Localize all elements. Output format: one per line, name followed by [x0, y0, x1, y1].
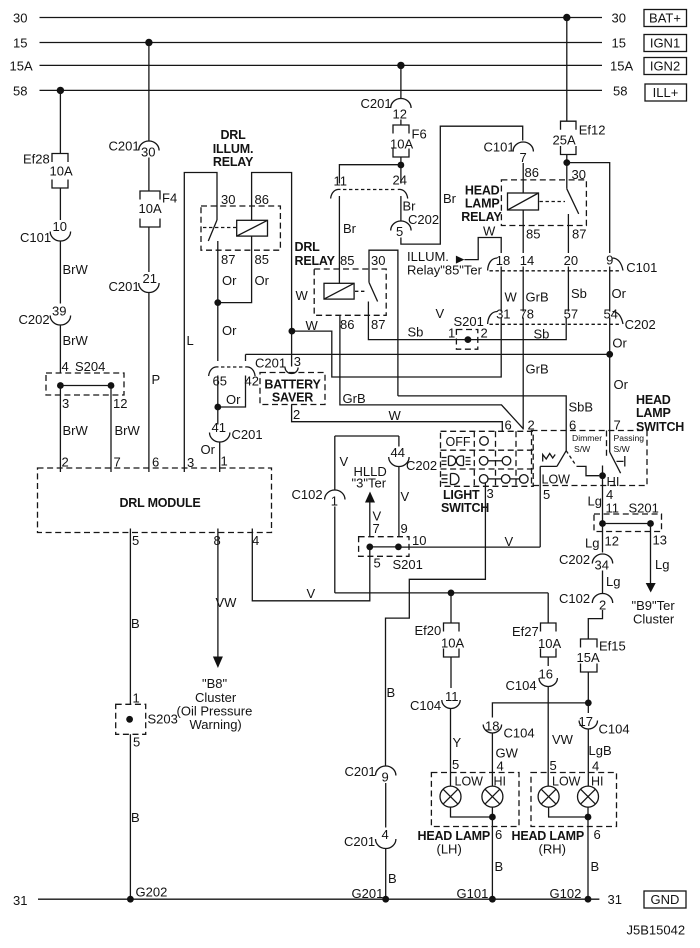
wire V S201-5 to DRL module pin4	[252, 529, 369, 601]
svg-text:65: 65	[213, 374, 227, 389]
wire B DRL module pin5 to splice S203	[129, 529, 131, 705]
wire relay 85 to C101 pin14	[522, 210, 524, 253]
svg-text:6: 6	[569, 418, 576, 433]
wire Ef20 to C104 pin11	[450, 657, 452, 688]
svg-text:B: B	[131, 616, 140, 631]
svg-text:54: 54	[603, 306, 617, 321]
wire Br C202-5 jog to C101 pin7	[401, 126, 523, 244]
svg-text:S/W: S/W	[614, 444, 631, 454]
node LH common dot	[489, 814, 496, 821]
svg-text:SWITCH: SWITCH	[441, 501, 489, 515]
svg-text:B: B	[495, 859, 504, 874]
svg-text:HI: HI	[591, 775, 604, 789]
svg-text:3: 3	[62, 396, 69, 411]
node ground G201 dot	[382, 896, 389, 903]
fuse F4 10A	[140, 191, 160, 200]
wire rail58 to fuse Ef28	[59, 90, 61, 153]
svg-text:7: 7	[520, 150, 527, 165]
node Or merge above C201-41	[214, 404, 221, 411]
wire Ef15 to junction	[587, 672, 589, 703]
svg-text:C201: C201	[255, 356, 286, 371]
connector C201 row pins 11 24	[331, 189, 341, 198]
wire rail15A to connector C201 pin12	[400, 65, 402, 98]
node: IGN2 tap dot on rail 15A	[397, 62, 404, 69]
fuse Ef12 25A	[566, 18, 568, 122]
svg-text:Cluster: Cluster	[633, 612, 675, 627]
svg-text:VW: VW	[552, 732, 574, 747]
svg-text:5: 5	[396, 224, 403, 239]
svg-text:85: 85	[255, 252, 269, 267]
svg-text:(LH): (LH)	[437, 842, 462, 857]
IGN2 box label	[644, 58, 687, 75]
wire GW C104-18 to LH high beam	[491, 734, 493, 787]
wire Ef27 feed	[547, 593, 549, 623]
lamp RH low beam bulb	[538, 786, 559, 807]
svg-text:10: 10	[53, 219, 67, 234]
wire B LH lamp to ground G101	[491, 817, 493, 899]
svg-text:C104: C104	[504, 726, 535, 741]
wire V C202-44 upper leg	[398, 436, 400, 447]
svg-text:86: 86	[525, 165, 539, 180]
wire rail15 to connector C201 pin30	[148, 43, 150, 142]
svg-text:C201: C201	[109, 139, 140, 154]
svg-text:DRL: DRL	[295, 240, 321, 254]
svg-text:LOW: LOW	[542, 473, 571, 487]
wire LH bulb commons	[451, 807, 493, 817]
svg-text:21: 21	[143, 271, 157, 286]
wire W goalpost from pointer to C101 pin18	[464, 238, 501, 260]
svg-text:LIGHT: LIGHT	[443, 488, 480, 502]
svg-text:15: 15	[612, 36, 626, 51]
wire C201-12 to fuse F6	[400, 120, 402, 126]
wire BrW S204-12 to DRL module pin7	[110, 386, 112, 473]
head lamp relay switch fixed contact	[567, 214, 569, 226]
svg-text:10A: 10A	[139, 201, 162, 216]
wire Lg C102-2 to fuse Ef15	[588, 610, 602, 639]
svg-text:S201: S201	[454, 314, 484, 329]
lamp LH high beam bulb	[482, 786, 503, 807]
node Or junction below illum relay	[214, 299, 221, 306]
head lamp relay coil	[508, 193, 539, 210]
node RH common dot	[585, 814, 592, 821]
svg-text:2: 2	[481, 326, 488, 341]
svg-text:5: 5	[133, 735, 140, 750]
svg-text:30: 30	[141, 145, 155, 160]
dimmer switch input stub	[565, 431, 567, 451]
svg-text:C104: C104	[599, 722, 630, 737]
ground rail 31	[38, 898, 599, 900]
DRL relay actuation link	[355, 290, 367, 292]
svg-text:2: 2	[62, 455, 69, 470]
node ground G101 dot	[489, 896, 496, 903]
fuse F6 10A	[393, 125, 409, 134]
wire C201-11 to DRL relay coil 85	[338, 196, 340, 283]
svg-text:LAMP: LAMP	[636, 406, 671, 420]
power rail 30 (BAT+)	[40, 17, 603, 19]
node Ef12 output junction	[563, 159, 570, 166]
signal arrow HLLD 3 terminal	[365, 492, 375, 503]
node S201 dot left	[599, 520, 606, 527]
svg-text:BrW: BrW	[63, 423, 89, 438]
svg-text:Dimmer: Dimmer	[572, 433, 602, 443]
svg-text:58: 58	[613, 83, 627, 98]
svg-text:1: 1	[133, 691, 140, 706]
svg-text:4: 4	[62, 359, 69, 374]
svg-text:W: W	[483, 224, 496, 239]
wire Br C201-24 to connector C202 pin5	[400, 196, 402, 222]
svg-text:W: W	[296, 288, 309, 303]
node S203 dot	[126, 716, 133, 723]
connector C201 row pins 65 42	[209, 367, 219, 376]
svg-text:87: 87	[221, 252, 235, 267]
splice S203 box	[116, 704, 146, 734]
node S201 splice dot	[465, 336, 472, 343]
wire Ef12 to junction	[566, 155, 568, 163]
wire V S201-10 to dimmer LOW	[398, 546, 540, 548]
svg-text:C202: C202	[406, 458, 437, 473]
svg-text:1: 1	[221, 454, 228, 469]
svg-text:OFF: OFF	[446, 435, 471, 449]
svg-text:Y: Y	[453, 735, 462, 750]
svg-text:C102: C102	[559, 591, 590, 606]
svg-text:C101: C101	[484, 140, 515, 155]
svg-text:GrB: GrB	[526, 362, 549, 377]
wire V main horizontal run	[335, 592, 548, 594]
svg-text:S/W: S/W	[574, 444, 591, 454]
power rail 15A (IGN2)	[40, 64, 603, 66]
svg-text:9: 9	[606, 253, 613, 268]
node Or junction	[606, 351, 613, 358]
wire HI output to splice S201	[602, 476, 604, 524]
svg-text:Ef20: Ef20	[415, 623, 442, 638]
dimmer switch arm	[557, 451, 566, 467]
svg-text:RELAY: RELAY	[295, 254, 336, 268]
connector C202 row pins 31 78 57 54	[488, 312, 497, 325]
svg-text:L: L	[187, 333, 194, 348]
node ground G202 dot	[127, 896, 134, 903]
wire Or: Ef12 junction to C101 pin9	[567, 163, 610, 253]
wire light switch pin3 to ground run	[386, 483, 486, 766]
svg-text:5: 5	[132, 533, 139, 548]
signal arrow to B8 cluster	[213, 657, 223, 669]
svg-text:Relay"85"Ter: Relay"85"Ter	[407, 263, 483, 278]
head lamp relay switch arm	[567, 189, 579, 214]
svg-text:G202: G202	[136, 885, 168, 900]
svg-text:10A: 10A	[390, 137, 413, 152]
fuse Ef27 10A	[541, 623, 557, 632]
svg-text:DRL: DRL	[220, 128, 246, 142]
svg-text:S201: S201	[629, 501, 659, 516]
svg-text:Or: Or	[614, 377, 629, 392]
node: ILL+ tap dot on rail 58	[57, 87, 64, 94]
svg-text:Br: Br	[443, 191, 457, 206]
svg-text:C202: C202	[19, 312, 50, 327]
svg-text:11: 11	[606, 501, 620, 516]
connector C101 row pins 18 14 20 9	[488, 258, 497, 271]
svg-text:10A: 10A	[538, 636, 561, 651]
svg-text:"3"Ter: "3"Ter	[352, 476, 387, 491]
HEAD LAMP RH dashed box	[531, 773, 617, 827]
svg-text:F6: F6	[412, 127, 427, 142]
wire LgB C104-17 to RH high beam	[587, 730, 589, 787]
svg-text:"B8": "B8"	[202, 676, 228, 691]
wire relay 87 to C101 pin20	[567, 226, 569, 254]
svg-text:P: P	[152, 372, 161, 387]
svg-text:B: B	[388, 871, 397, 886]
svg-text:12: 12	[605, 534, 619, 549]
BATTERY SAVER dashed box	[260, 373, 325, 405]
svg-text:IGN2: IGN2	[650, 59, 680, 74]
svg-text:4: 4	[382, 827, 389, 842]
splice S201 box upper	[359, 537, 409, 557]
wire HI junction to C104 pin18	[492, 703, 588, 718]
svg-text:86: 86	[255, 192, 269, 207]
svg-text:BrW: BrW	[63, 333, 89, 348]
fuse Ef15 15A	[581, 639, 598, 648]
wire Sb C101-20 to C202-57	[567, 267, 569, 312]
wire B RH lamp to ground G102	[587, 817, 589, 899]
svg-text:V: V	[436, 306, 445, 321]
svg-text:30: 30	[221, 192, 235, 207]
splice S201 box lower right	[594, 514, 662, 532]
svg-text:Or: Or	[222, 323, 237, 338]
svg-text:5: 5	[374, 556, 381, 571]
wire RH bulb commons	[549, 807, 588, 817]
svg-text:IGN1: IGN1	[650, 36, 680, 51]
svg-text:44: 44	[391, 445, 405, 460]
svg-text:57: 57	[564, 306, 578, 321]
connector C201 pin 3 on W wire	[285, 368, 298, 374]
svg-text:41: 41	[212, 420, 226, 435]
svg-text:C101: C101	[20, 230, 51, 245]
lamp LH low beam bulb	[440, 786, 461, 807]
svg-text:85: 85	[340, 253, 354, 268]
wire GrB C101-14 to C202-78	[522, 267, 524, 312]
svg-text:Ef27: Ef27	[512, 624, 539, 639]
wire S201 internal link	[603, 523, 651, 525]
svg-text:Or: Or	[201, 442, 216, 457]
wire W battery saver pin2 to light switch pin6	[292, 405, 503, 432]
light switch dashed grid box	[441, 431, 534, 486]
wire BrW S204-3 to DRL module pin2	[59, 386, 61, 473]
svg-text:17: 17	[579, 714, 593, 729]
wire Lg S201-12 to C202-34	[602, 524, 604, 553]
node: IGN1 tap dot on rail 15	[145, 39, 152, 46]
wire B S203 to ground G202	[129, 734, 131, 899]
light switch head row symbol	[442, 475, 448, 483]
light switch park row symbol	[442, 458, 447, 465]
node S204 dot A	[57, 382, 64, 389]
svg-text:Sb: Sb	[408, 325, 424, 340]
svg-text:12: 12	[113, 396, 127, 411]
svg-text:Ef28: Ef28	[23, 152, 50, 167]
wire B C201-4 to ground G201	[385, 849, 387, 900]
light switch park row contacts	[479, 457, 488, 466]
svg-text:BrW: BrW	[63, 262, 89, 277]
wire Lg C202-34 to C102-2	[602, 571, 604, 594]
DRL relay switch fixed contact	[367, 302, 369, 316]
svg-text:B: B	[131, 810, 140, 825]
svg-text:S203: S203	[148, 712, 178, 727]
wire C101-7 to head lamp relay coil 86	[522, 163, 524, 193]
svg-text:S201: S201	[393, 557, 423, 572]
svg-text:LAMP: LAMP	[465, 197, 500, 211]
node S204 dot B	[108, 382, 115, 389]
wire F4 to connector C201 pin21	[148, 227, 150, 272]
wire HI fixed contact stub	[602, 466, 604, 476]
svg-text:30: 30	[612, 11, 626, 26]
dimmer switch spring symbol	[543, 454, 556, 462]
DRL relay coil	[324, 283, 354, 299]
svg-text:15A: 15A	[577, 650, 600, 665]
svg-text:34: 34	[595, 558, 609, 573]
svg-text:LOW: LOW	[552, 775, 581, 789]
DRL relay switch arm	[369, 282, 378, 301]
wire S204 internal link	[60, 385, 111, 387]
svg-text:HEAD: HEAD	[636, 393, 671, 407]
svg-text:10: 10	[412, 533, 426, 548]
svg-text:42: 42	[245, 374, 259, 389]
wire VW C104-16 to RH low beam	[547, 687, 549, 786]
wire GrB DRL relay 86 to headlamp switch pin2	[340, 315, 523, 428]
wire V top link for C102-1 and C202-44	[335, 435, 399, 437]
wire junction to relay 30	[566, 163, 568, 189]
svg-text:B: B	[387, 685, 396, 700]
wire C201-24 upper leg	[400, 165, 402, 184]
svg-text:S204: S204	[75, 359, 105, 374]
svg-text:C101: C101	[626, 260, 657, 275]
svg-text:Warning): Warning)	[190, 717, 242, 732]
wire BrW C101-10 to C202-39	[59, 241, 61, 304]
svg-text:Lg: Lg	[588, 494, 602, 509]
wire F6 to junction	[400, 157, 402, 165]
svg-text:Or: Or	[222, 273, 237, 288]
svg-text:4: 4	[252, 533, 259, 548]
svg-text:Or: Or	[255, 273, 270, 288]
wire HI junction to C104 pin17	[587, 703, 589, 713]
svg-text:6: 6	[152, 455, 159, 470]
signal arrow ILLUM Relay 85 terminal	[456, 256, 465, 264]
svg-text:7: 7	[614, 418, 621, 433]
svg-text:Sb: Sb	[534, 327, 550, 342]
svg-text:Ef12: Ef12	[579, 123, 606, 138]
DRL illum relay switch arm	[208, 220, 217, 241]
wire LOW output to S201 pin10 run	[539, 466, 541, 547]
splice S204 box	[46, 373, 124, 395]
svg-text:11: 11	[445, 689, 459, 704]
wire C201-42 leg	[218, 354, 246, 407]
svg-text:6: 6	[594, 827, 601, 842]
svg-text:Lg: Lg	[606, 574, 620, 589]
svg-text:C202: C202	[559, 552, 590, 567]
svg-text:RELAY: RELAY	[213, 155, 254, 169]
svg-text:18: 18	[496, 253, 510, 268]
wire V C102-1 upper leg	[334, 436, 336, 491]
svg-text:10A: 10A	[441, 636, 464, 651]
wire V C102-1 to main V run	[334, 507, 336, 593]
svg-text:RELAY: RELAY	[461, 210, 502, 224]
svg-text:C201: C201	[232, 427, 263, 442]
wire W C101-18 to C202-31	[500, 267, 502, 312]
light switch head row contacts	[479, 475, 488, 484]
svg-text:6: 6	[505, 417, 512, 432]
svg-text:LOW: LOW	[455, 775, 484, 789]
node HI junction dot	[599, 472, 606, 479]
svg-text:C201: C201	[109, 279, 140, 294]
node S201 dot pin7/5	[366, 544, 373, 551]
passing switch input stub	[609, 431, 611, 453]
lamp RH high beam bulb	[578, 786, 599, 807]
node S201 dot right	[647, 520, 654, 527]
GND box label	[644, 891, 686, 908]
svg-text:W: W	[306, 318, 319, 333]
svg-text:C201: C201	[361, 96, 392, 111]
svg-text:1: 1	[331, 494, 338, 509]
svg-text:4: 4	[497, 759, 504, 774]
svg-text:3: 3	[487, 486, 494, 501]
BAT+ box label	[644, 10, 687, 27]
svg-text:12: 12	[393, 107, 407, 122]
svg-text:9: 9	[382, 770, 389, 785]
wire DRL relay 30 frame to SbB run	[369, 250, 398, 396]
wire S201 internal link	[370, 546, 399, 548]
passing switch arm	[610, 452, 621, 473]
svg-text:30: 30	[572, 167, 586, 182]
svg-text:1: 1	[448, 326, 455, 341]
wire Ef27 to C104 pin16	[547, 657, 549, 666]
svg-text:(RH): (RH)	[539, 842, 566, 857]
ILL+ box label	[645, 84, 687, 101]
wire Or junction to connector C201 pin65	[217, 250, 219, 302]
power rail 15 (IGN1)	[40, 42, 603, 44]
wire W C202-31 down and across to illum relay frame	[292, 325, 501, 378]
svg-text:GND: GND	[651, 892, 680, 907]
svg-text:V: V	[401, 489, 410, 504]
svg-text:BAT+: BAT+	[649, 11, 681, 26]
svg-text:C202: C202	[408, 212, 439, 227]
svg-text:30: 30	[13, 11, 27, 26]
wire L: DRL illum relay 30 frame to DRL module pin3	[184, 173, 217, 473]
wire Ef28 to connector C101 pin10	[59, 188, 61, 220]
svg-text:14: 14	[520, 253, 534, 268]
svg-text:78: 78	[520, 306, 534, 321]
svg-text:7: 7	[114, 455, 121, 470]
DRL illum relay dashed body	[201, 206, 280, 250]
wire Or horizontal run to C201-42	[246, 353, 610, 355]
svg-text:16: 16	[539, 667, 553, 682]
node W branch dot	[289, 328, 296, 335]
svg-text:31: 31	[608, 892, 622, 907]
svg-text:8: 8	[214, 533, 221, 548]
svg-text:DRL MODULE: DRL MODULE	[119, 496, 200, 510]
svg-text:24: 24	[393, 173, 407, 188]
wire V arrow to S201 pin7	[369, 503, 371, 537]
svg-text:ILL+: ILL+	[653, 85, 679, 100]
svg-text:C102: C102	[292, 487, 323, 502]
wire VW DRL module pin8 to B8 cluster arrow	[217, 529, 219, 658]
svg-text:Or: Or	[612, 336, 627, 351]
connector C201 pin 41	[217, 407, 219, 425]
DRL MODULE dashed box	[38, 468, 272, 533]
svg-text:5: 5	[452, 757, 459, 772]
wire F6 junction to connector C201 pin11	[339, 165, 401, 184]
svg-text:W: W	[389, 408, 402, 423]
svg-text:31: 31	[13, 893, 27, 908]
svg-text:7: 7	[373, 521, 380, 536]
svg-text:31: 31	[496, 306, 510, 321]
svg-text:C104: C104	[410, 698, 441, 713]
svg-text:Passing: Passing	[614, 433, 645, 443]
